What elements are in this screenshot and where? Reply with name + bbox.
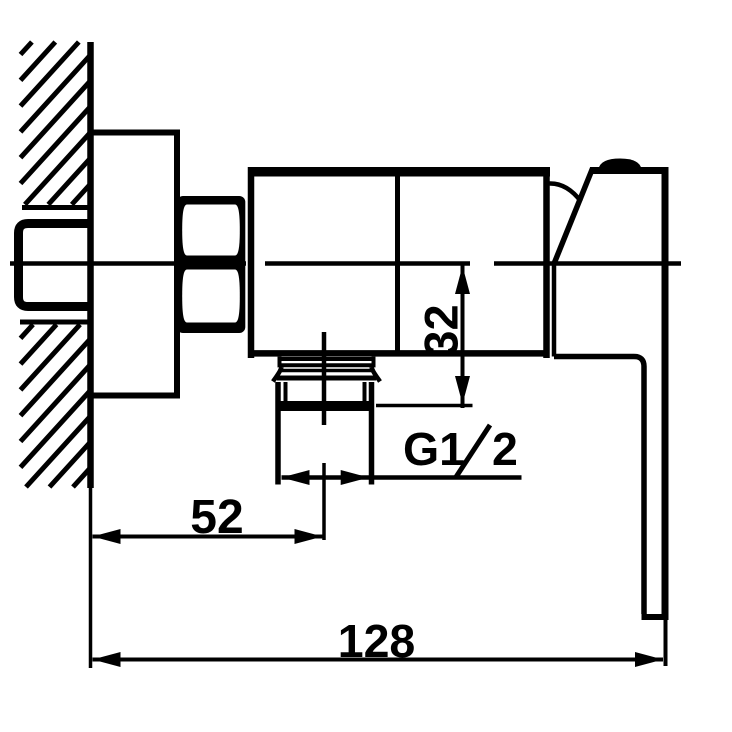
handle right extension line — [664, 620, 668, 666]
valve body right edge — [543, 167, 550, 358]
main axis centerline right segment — [494, 261, 681, 266]
wall face line — [87, 42, 94, 488]
main axis centerline middle segment — [265, 261, 470, 266]
hatch boundary line upper — [22, 205, 91, 210]
outlet washer — [278, 357, 376, 361]
lever handle right edge — [662, 167, 669, 620]
dimension 32 line — [461, 264, 465, 409]
outlet axis centerline — [322, 332, 327, 425]
outlet nipple right side — [369, 382, 375, 485]
outlet nipple left side — [275, 382, 281, 485]
outlet axis extension line — [322, 463, 326, 540]
dimension G1/2 line — [282, 475, 522, 480]
outlet flare collar left side — [273, 367, 282, 382]
dimension 32 lower arrow — [455, 376, 470, 404]
dimension G1/2 right arrow — [341, 470, 369, 485]
svg-text:G1: G1 — [403, 423, 465, 475]
dimension 52 left arrow — [93, 529, 121, 544]
union nut upper facet — [182, 205, 240, 256]
outlet washer left end — [278, 357, 282, 368]
svg-text:52: 52 — [190, 491, 243, 544]
valve body section divider — [395, 171, 400, 355]
dimension 52 line — [93, 535, 323, 539]
wall face extension line — [89, 488, 93, 668]
outlet flare collar right side — [372, 367, 381, 382]
outlet washer right end — [372, 357, 376, 368]
cartridge cover left edge — [552, 262, 557, 357]
svg-text:2: 2 — [492, 423, 518, 475]
main axis centerline left segment — [10, 261, 246, 266]
cartridge cover bottom with rounded corner — [554, 357, 644, 615]
wall hatching upper — [21, 42, 90, 205]
valve body left edge — [248, 167, 255, 358]
cap dome arc — [550, 183, 582, 201]
lever handle diagonal edge — [555, 169, 593, 263]
escutcheon plate — [91, 133, 177, 396]
outlet washer bottom line — [278, 363, 376, 367]
dimension 128 line — [93, 658, 664, 662]
dimension G1/2 left arrow — [282, 470, 310, 485]
lever cap dome button — [599, 159, 642, 171]
valve body top edge — [248, 167, 550, 177]
hatch boundary line lower — [20, 320, 91, 325]
valve body bottom edge — [248, 350, 550, 357]
outlet flare collar line 1 — [280, 369, 373, 373]
dimension 32 upper arrow — [455, 266, 470, 294]
dimension G1/2 slash — [456, 425, 490, 477]
svg-text:128: 128 — [338, 615, 416, 667]
svg-text:32: 32 — [415, 304, 468, 356]
outlet flare collar line 2 — [277, 376, 376, 381]
outlet nipple inner left line — [284, 382, 288, 401]
dimension 128 right arrow — [635, 652, 663, 667]
dimension 52 right arrow — [295, 529, 323, 544]
wall hatching lower — [21, 325, 90, 488]
outlet nipple collar band — [276, 401, 375, 411]
dimension 128 left arrow — [93, 652, 121, 667]
union nut lower facet — [182, 270, 240, 323]
union nut — [177, 196, 245, 333]
lever handle grip bottom — [642, 614, 669, 620]
outlet nipple inner right line — [363, 382, 367, 401]
concealed supply fitting — [19, 224, 92, 307]
lever handle top edge — [590, 167, 669, 174]
dimension 32 extension line — [376, 404, 473, 408]
